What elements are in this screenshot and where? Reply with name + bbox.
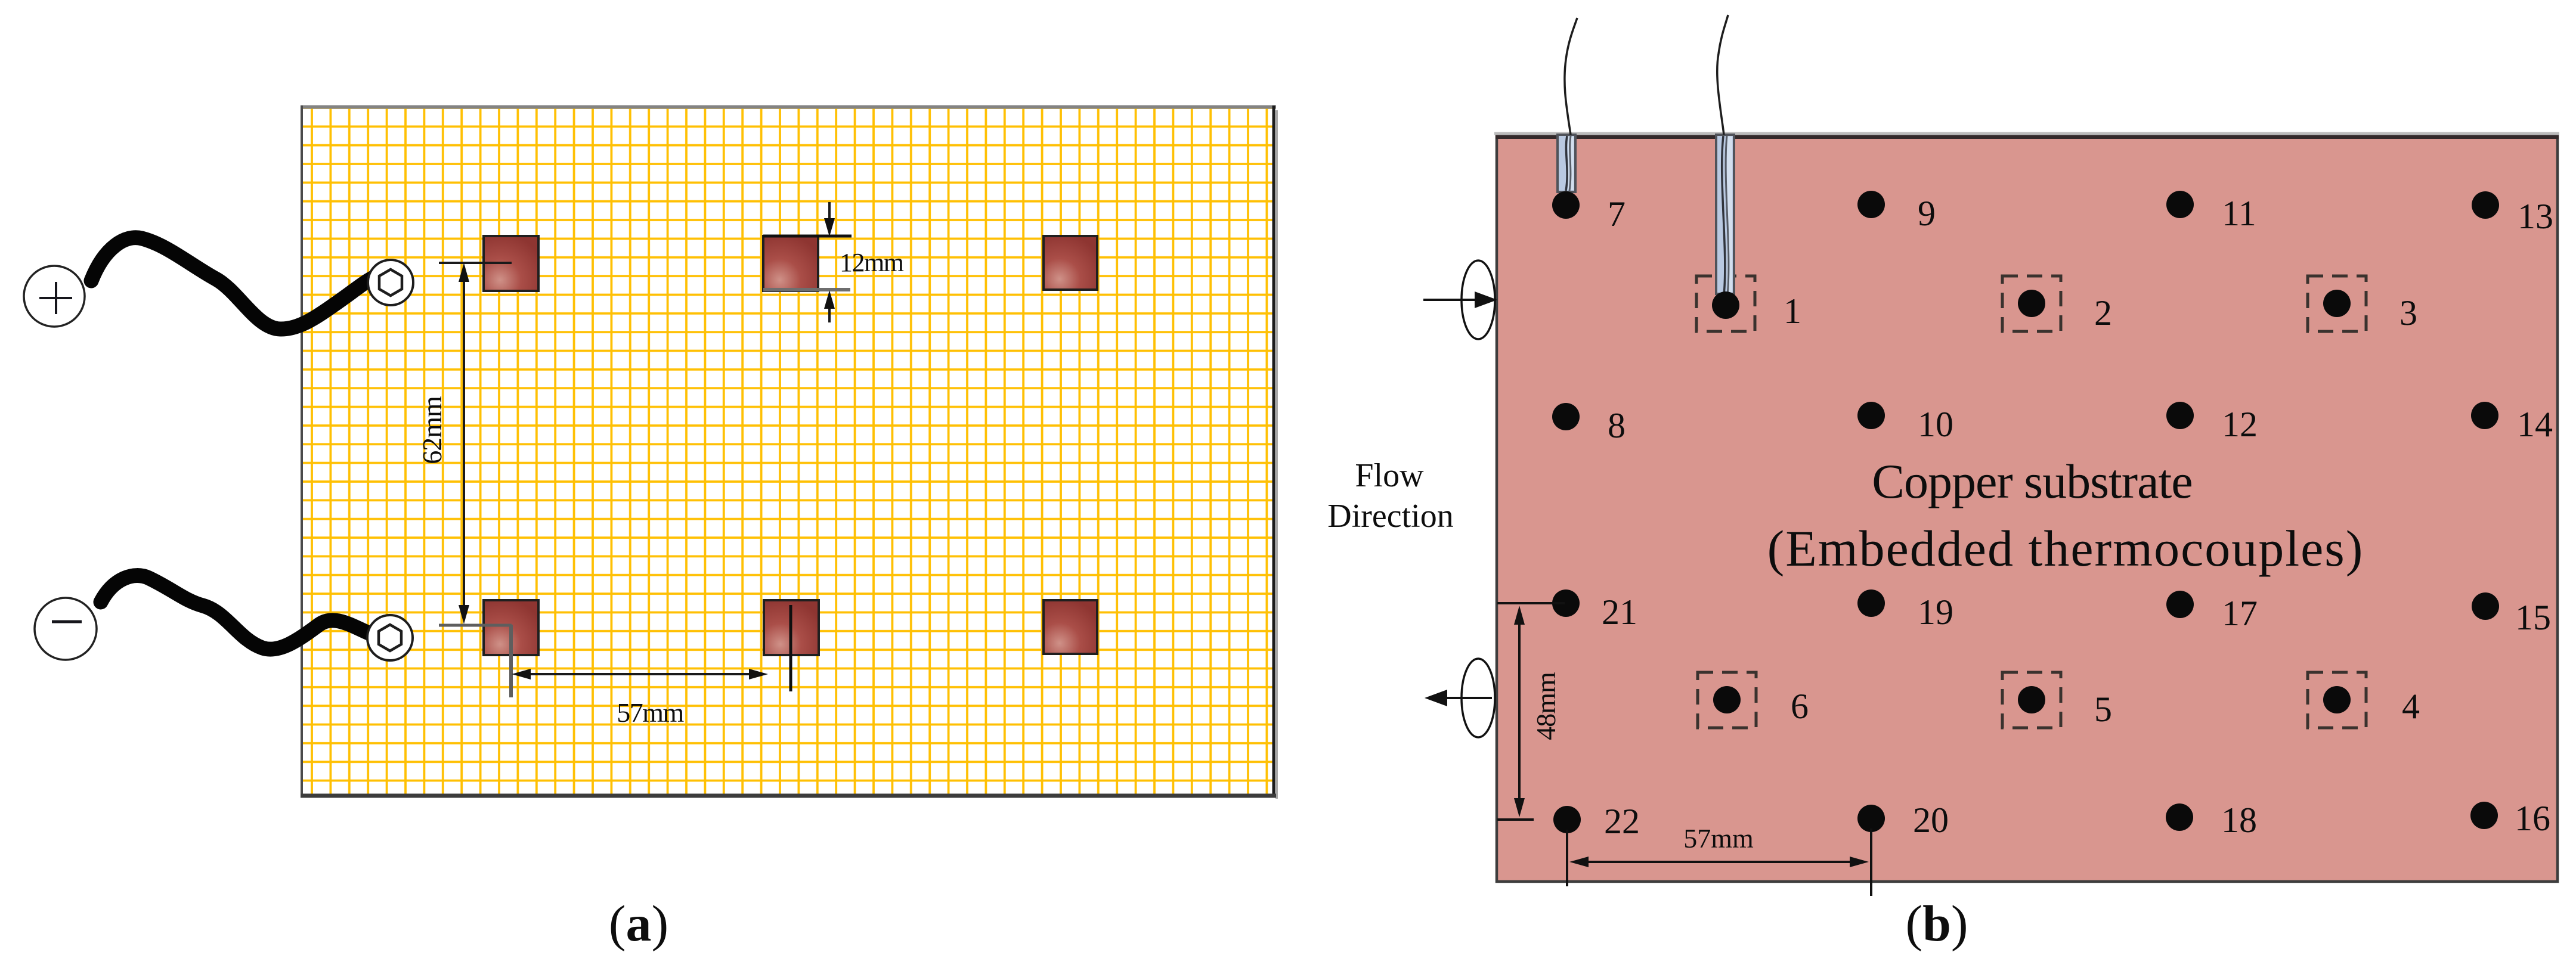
heater square S4 (bottom-left) [484,600,538,655]
svg-text:17: 17 [2222,594,2258,633]
thermocouple dot 10 [1857,402,1885,429]
svg-text:6: 6 [1791,687,1809,726]
inflow swirl ellipse [1462,260,1495,339]
svg-text:9: 9 [1918,194,1936,233]
outflow arrow [1445,697,1492,699]
thermocouple dot 9 [1857,191,1885,218]
thermocouple dot 14 [2471,402,2498,429]
dashed box around dot 1 [1696,276,1755,331]
svg-text:19: 19 [1918,592,1953,632]
heater square S2 (top-middle) [763,236,818,291]
svg-text:18: 18 [2221,800,2257,840]
svg-text:62mm: 62mm [417,396,447,464]
thermocouple lead wire above tube 1 [1717,15,1728,135]
heater square S6 (bottom-right) [1044,600,1097,654]
svg-text:8: 8 [1608,406,1626,445]
dashed box and thermocouple dot 5 [2002,672,2112,729]
thermocouple dot 12 [2166,402,2194,429]
negative lead wire [101,576,369,650]
svg-text:(b): (b) [1905,895,1968,952]
plus terminal [24,266,85,327]
dashed box and thermocouple dot 4 [2308,672,2420,728]
thermocouple dot 21 [1552,589,1580,617]
dimension 62mm vertical [417,263,512,625]
thermocouple dot 20 [1857,805,1885,832]
svg-text:(Embedded thermocouples): (Embedded thermocouples) [1767,520,2364,577]
thermocouple tube into dot 7 [1558,135,1575,192]
dashed box and thermocouple dot 2 [2002,276,2112,333]
dimension 57mm horizontal (panel b) [1567,823,1871,896]
svg-text:57mm: 57mm [1683,823,1754,854]
svg-text:2: 2 [2094,293,2112,333]
svg-text:10: 10 [1918,405,1953,444]
svg-text:13: 13 [2518,197,2553,236]
dimension 48mm vertical (panel b) [1497,603,1565,820]
heater square S3 (top-right) [1044,236,1097,290]
heater square S5 (bottom-middle) [764,600,819,655]
svg-text:7: 7 [1608,194,1626,234]
svg-text:21: 21 [1602,592,1637,632]
positive lead wire [91,238,376,329]
svg-text:1: 1 [1784,291,1801,331]
svg-text:57mm: 57mm [617,697,684,728]
outflow swirl ellipse [1462,659,1495,737]
svg-text:14: 14 [2517,405,2553,444]
svg-text:12mm: 12mm [840,248,904,277]
thermocouple dot 19 [1857,589,1885,617]
minus terminal [35,598,97,660]
heater square S1 (top-left) [484,236,538,291]
svg-text:(a): (a) [609,895,668,952]
thermocouple dot 15 [2472,592,2499,620]
thermocouple dot 1 with label [1712,291,1801,331]
svg-text:12: 12 [2222,405,2258,444]
dimension 12mm (square height, top-middle) [763,202,904,322]
thermocouple dot 13 [2472,191,2499,219]
svg-text:48mm: 48mm [1531,672,1561,740]
thermocouple dot 7 [1552,191,1580,219]
svg-text:5: 5 [2094,690,2112,729]
thermocouple lead wire above tube 7 [1565,18,1577,135]
svg-text:15: 15 [2515,598,2551,637]
svg-text:Copper substrate: Copper substrate [1872,454,2192,508]
thermocouple dot 8 [1552,403,1580,430]
thermocouple dot 18 [2166,803,2193,831]
dashed box and thermocouple dot 6 [1698,672,1809,728]
thermocouple dot 11 [2166,191,2194,218]
heater mat panel (a) grid background [301,106,1277,799]
svg-text:Flow: Flow [1355,457,1424,494]
svg-text:20: 20 [1913,800,1949,840]
dashed box and thermocouple dot 3 [2308,276,2417,333]
svg-text:16: 16 [2515,799,2550,838]
thermocouple tube into dot 1 [1716,135,1734,294]
top bevel light strip of panel (b) [1494,132,2559,135]
inflow arrow [1423,299,1478,301]
thermocouple dot 17 [2166,591,2194,618]
svg-text:11: 11 [2222,194,2256,233]
svg-text:4: 4 [2402,687,2420,726]
svg-text:3: 3 [2399,293,2417,333]
dimension 57mm horizontal (panel a) [511,605,791,728]
svg-text:22: 22 [1604,802,1640,841]
svg-text:Direction: Direction [1327,498,1453,535]
thermocouple dot 22 [1553,806,1581,833]
copper substrate panel (b) [1497,136,2558,882]
bolt connector (negative) [367,615,413,660]
thermocouple dot 16 [2470,802,2498,829]
bolt connector (positive) [368,260,413,305]
